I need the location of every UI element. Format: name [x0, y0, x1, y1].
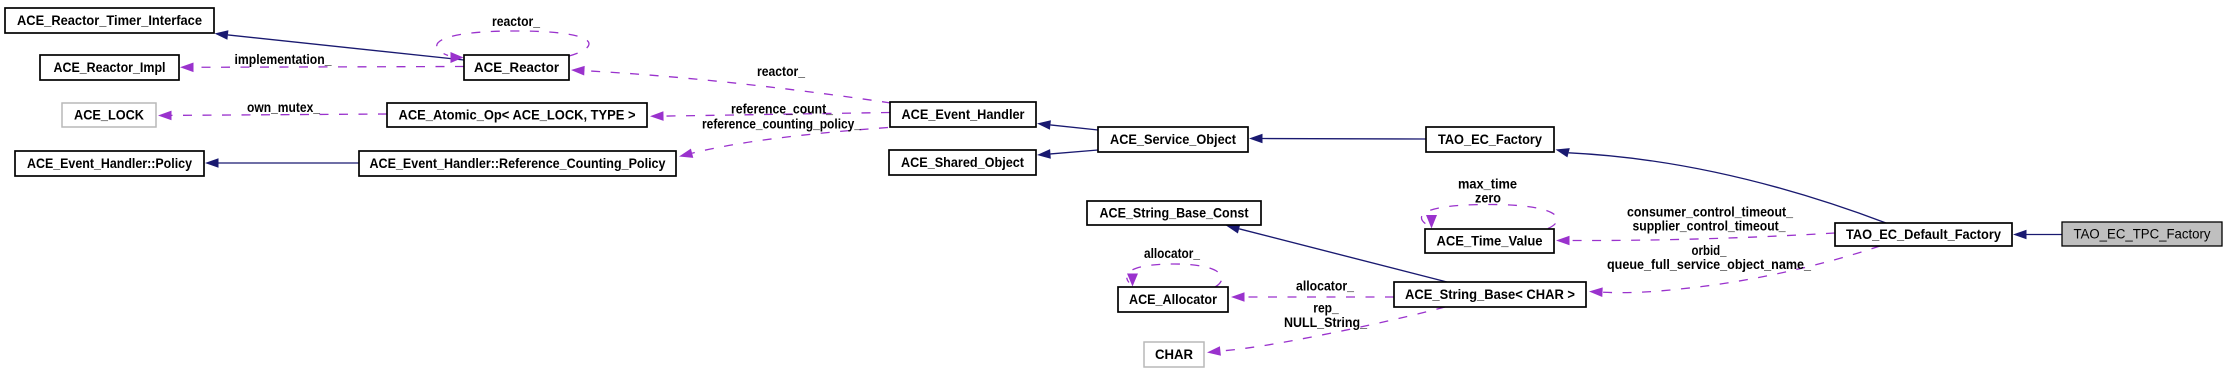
- svg-text:consumer_control_timeout_: consumer_control_timeout_: [1627, 205, 1793, 220]
- node ACE_Reactor_Impl: [40, 55, 179, 80]
- node ACE_Reactor_Timer_Interface: [5, 8, 214, 33]
- node TAO_EC_TPC_Factory: [2062, 222, 2222, 246]
- node ACE_Reactor: [464, 55, 569, 80]
- svg-text:max_time: max_time: [1458, 177, 1517, 192]
- label zero: [1475, 191, 1501, 206]
- svg-text:NULL_String_: NULL_String_: [1284, 315, 1367, 330]
- edge implementation_ ACE_Reactor to ACE_Reactor_Impl: [180, 63, 464, 73]
- svg-text:orbid_: orbid_: [1692, 243, 1727, 258]
- edge inheritance TAO_EC_Factory to ACE_Service_Object: [1249, 134, 1426, 144]
- node ACE_Event_Handler::Policy: [15, 151, 204, 176]
- svg-text:ACE_String_Base< CHAR >: ACE_String_Base< CHAR >: [1405, 287, 1575, 302]
- svg-text:own_mutex_: own_mutex_: [247, 100, 320, 115]
- edge reference_counting_policy_ ACE_Event_Handler to ACE_Event_Handler::Reference_Counting_Policy: [679, 128, 888, 158]
- svg-text:ACE_Reactor_Impl: ACE_Reactor_Impl: [54, 60, 166, 75]
- svg-text:ACE_Reactor: ACE_Reactor: [474, 60, 560, 75]
- edge inheritance TAO_EC_TPC_Factory to TAO_EC_Default_Factory: [2013, 230, 2062, 240]
- svg-text:ACE_Service_Object: ACE_Service_Object: [1110, 132, 1236, 147]
- svg-text:ACE_Atomic_Op< ACE_LOCK, TYPE: ACE_Atomic_Op< ACE_LOCK, TYPE >: [399, 108, 636, 123]
- svg-text:queue_full_service_object_name: queue_full_service_object_name_: [1607, 257, 1811, 272]
- label allocator_ (to ACE_Allocator): [1296, 279, 1354, 294]
- node ACE_Shared_Object: [889, 150, 1036, 175]
- label max_time: [1458, 177, 1517, 192]
- edge inheritance TAO_EC_Default_Factory to TAO_EC_Factory: [1556, 148, 1887, 223]
- edge inheritance ACE_Service_Object to ACE_Shared_Object: [1037, 149, 1098, 159]
- svg-text:TAO_EC_TPC_Factory: TAO_EC_TPC_Factory: [2074, 227, 2211, 242]
- label orbid_: [1692, 243, 1727, 258]
- edge reference_count_ ACE_Event_Handler to ACE_Atomic_Op: [650, 111, 890, 121]
- edge inheritance ACE_Event_Handler::Reference_Counting_Policy to ACE_Event_Handler::Policy: [205, 158, 359, 168]
- label allocator_ (self loop): [1144, 246, 1200, 261]
- node ACE_String_Base_Const: [1087, 201, 1261, 225]
- svg-text:allocator_: allocator_: [1296, 279, 1354, 294]
- node ACE_Service_Object: [1098, 127, 1248, 152]
- edge allocator_ ACE_String_Base<CHAR> to ACE_Allocator: [1231, 292, 1394, 302]
- edge own_mutex_ ACE_Atomic_Op to ACE_LOCK: [158, 111, 387, 121]
- label reference_count_: [731, 102, 833, 117]
- label consumer_control_timeout_: [1627, 205, 1793, 220]
- svg-text:reactor_: reactor_: [757, 64, 805, 79]
- label reactor_ (self loop): [492, 14, 540, 29]
- edge self-loop reactor_ on ACE_Reactor: [437, 31, 589, 63]
- label own_mutex_: [247, 100, 320, 115]
- node ACE_Event_Handler: [890, 102, 1036, 127]
- svg-text:ACE_Shared_Object: ACE_Shared_Object: [901, 155, 1024, 170]
- svg-text:reference_counting_policy_: reference_counting_policy_: [702, 117, 861, 132]
- label reference_counting_policy_: [702, 117, 861, 132]
- edge consumer/supplier_control_timeout_ TAO_EC_Default_Factory to ACE_Time_Value: [1556, 233, 1835, 245]
- edge self-loop max_time/zero on ACE_Time_Value: [1421, 205, 1557, 229]
- label queue_full_service_object_name_: [1607, 257, 1811, 272]
- node TAO_EC_Factory: [1426, 127, 1554, 152]
- label reactor_ (to ACE_Reactor): [757, 64, 805, 79]
- edge inheritance ACE_String_Base<CHAR> to ACE_String_Base_Const: [1226, 224, 1447, 282]
- svg-text:ACE_Allocator: ACE_Allocator: [1129, 292, 1218, 307]
- svg-text:ACE_String_Base_Const: ACE_String_Base_Const: [1100, 206, 1249, 221]
- svg-text:TAO_EC_Factory: TAO_EC_Factory: [1438, 132, 1542, 147]
- svg-text:rep_: rep_: [1313, 301, 1339, 316]
- svg-text:allocator_: allocator_: [1144, 246, 1200, 261]
- svg-text:ACE_Reactor_Timer_Interface: ACE_Reactor_Timer_Interface: [17, 13, 202, 28]
- node ACE_String_Base&lt; CHAR &gt;: [1394, 282, 1586, 307]
- svg-text:supplier_control_timeout_: supplier_control_timeout_: [1633, 219, 1786, 234]
- node ACE_LOCK: [62, 103, 156, 127]
- node ACE_Allocator: [1118, 287, 1228, 312]
- svg-text:ACE_Event_Handler: ACE_Event_Handler: [902, 107, 1026, 122]
- svg-text:reactor_: reactor_: [492, 14, 540, 29]
- edge inheritance ACE_Service_Object to ACE_Event_Handler: [1037, 120, 1098, 130]
- label supplier_control_timeout_: [1633, 219, 1786, 234]
- label rep_: [1313, 301, 1339, 316]
- edge orbid_/queue_full_service_object_name_ TAO_EC_Default_Factory to ACE_String_Base<CHAR>: [1589, 246, 1880, 297]
- node ACE_Event_Handler::Reference_Counting_Policy: [359, 151, 676, 176]
- node CHAR: [1144, 342, 1204, 367]
- label NULL_String_: [1284, 315, 1367, 330]
- node TAO_EC_Default_Factory: [1835, 223, 2012, 246]
- svg-text:ACE_Event_Handler::Policy: ACE_Event_Handler::Policy: [27, 156, 192, 171]
- edge rep_/NULL_String_ ACE_String_Base<CHAR> to CHAR: [1207, 307, 1445, 356]
- label implementation_: [235, 52, 332, 67]
- svg-text:ACE_Event_Handler::Reference_C: ACE_Event_Handler::Reference_Counting_Po…: [370, 156, 666, 171]
- svg-text:ACE_LOCK: ACE_LOCK: [74, 108, 144, 123]
- svg-text:CHAR: CHAR: [1155, 347, 1193, 362]
- edge inheritance ACE_Reactor to ACE_Reactor_Timer_Interface: [215, 30, 465, 60]
- svg-text:zero: zero: [1475, 191, 1501, 206]
- svg-text:TAO_EC_Default_Factory: TAO_EC_Default_Factory: [1846, 227, 2001, 242]
- edge self-loop allocator_ on ACE_Allocator: [1127, 264, 1222, 287]
- svg-text:ACE_Time_Value: ACE_Time_Value: [1437, 234, 1543, 249]
- node ACE_Time_Value: [1425, 229, 1554, 253]
- edge reactor_ ACE_Event_Handler to ACE_Reactor: [571, 66, 891, 103]
- node ACE_Atomic_Op&lt; ACE_LOCK, TYPE &gt;: [387, 103, 647, 127]
- svg-text:implementation_: implementation_: [235, 52, 332, 67]
- svg-text:reference_count_: reference_count_: [731, 102, 833, 117]
